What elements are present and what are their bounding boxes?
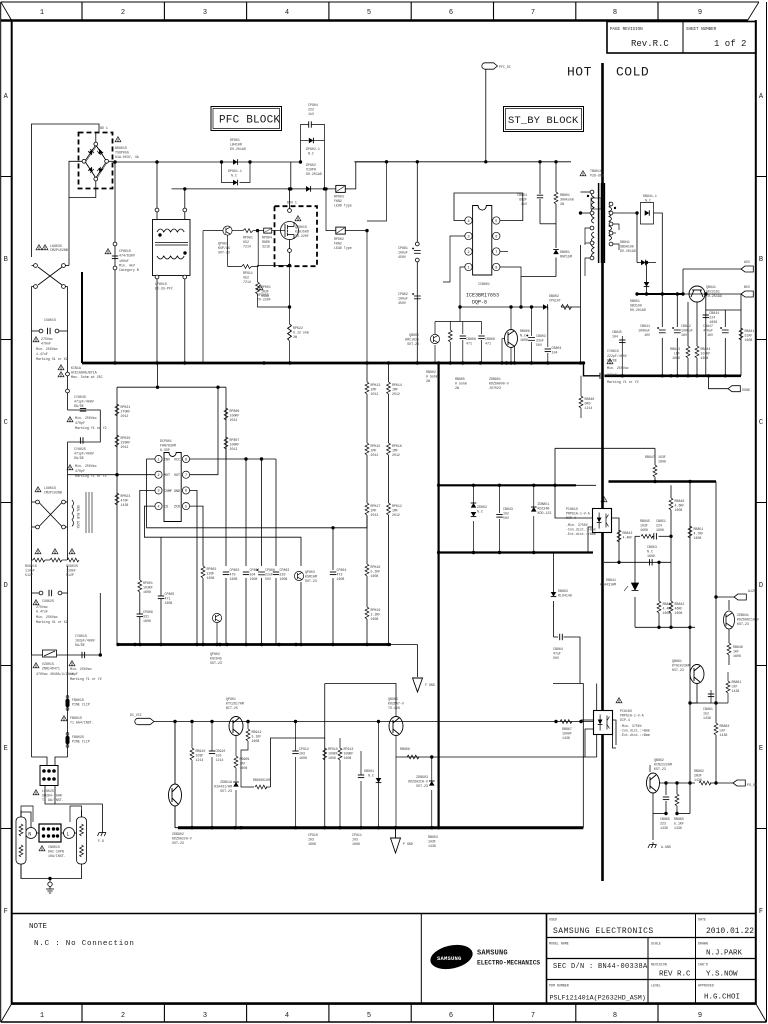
svg-text:QP901: QP901 <box>218 242 228 246</box>
svg-text:RB908: RB908 <box>253 778 263 782</box>
svg-text:FKN2: FKN2 <box>334 199 342 203</box>
svg-text:50V: 50V <box>536 343 542 347</box>
svg-text:1KF: 1KF <box>240 762 246 766</box>
svg-text:CPG10T: CPG10T <box>549 299 561 303</box>
svg-text:RPK13: RPK13 <box>371 383 381 387</box>
wire vertical joining rails <box>290 162 292 189</box>
svg-text:RPK21: RPK21 <box>121 405 131 409</box>
svg-text:USED: USED <box>549 918 557 922</box>
bus ST_BY snubber bus y=552.5 <box>439 551 593 553</box>
svg-text:104: 104 <box>552 351 558 355</box>
svg-text:QP803: QP803 <box>305 570 315 574</box>
svg-text:RGP15M: RGP15M <box>560 255 572 259</box>
svg-text:470F: 470F <box>121 499 129 503</box>
svg-text:ICB801: ICB801 <box>478 282 490 286</box>
svg-text:-Ext.dist.:>8mm: -Ext.dist.:>8mm <box>566 532 596 536</box>
capacitor CY804S <box>80 409 86 412</box>
transistor QB903 right <box>389 710 403 828</box>
Y-cap CY861 <box>600 373 603 379</box>
svg-text:512P: 512P <box>25 573 33 577</box>
svg-text:4: 4 <box>285 9 289 17</box>
svg-text:RP903: RP903 <box>334 195 344 199</box>
svg-text:CB801: CB801 <box>517 193 527 197</box>
side row ticks <box>1 177 767 829</box>
resistor RB845 RB848 RB849 RB842 capacitor CB851 CB853 network <box>604 485 695 627</box>
svg-text:300kohm: 300kohm <box>560 198 574 202</box>
capacitor CX802 <box>39 591 43 595</box>
svg-text:Category B: Category B <box>119 268 139 272</box>
svg-text:RX803S: RX803S <box>66 564 78 568</box>
svg-text:CP804: CP804 <box>337 568 347 572</box>
wire bridge bottom down-left <box>69 189 96 198</box>
svg-text:2012: 2012 <box>121 414 129 418</box>
zener ZD802 <box>473 485 475 552</box>
svg-text:2012: 2012 <box>230 418 238 422</box>
svg-text:D: D <box>4 582 8 590</box>
svg-text:1608: 1608 <box>344 756 352 760</box>
svg-text:RB862: RB862 <box>694 769 704 773</box>
svg-text:E: E <box>759 745 763 753</box>
svg-text:LKF: LKF <box>720 729 726 733</box>
svg-text:DB863: DB863 <box>558 589 568 593</box>
wire vertical x=583.3 <box>553 684 583 828</box>
svg-text:7214: 7214 <box>243 245 251 249</box>
wire below LF802 <box>45 786 103 805</box>
secondary connections <box>613 203 662 295</box>
svg-text:CB864: CB864 <box>553 647 563 651</box>
wire y=683.5 segment left <box>325 684 396 711</box>
zener ZDB841 + QB843 right <box>724 597 735 665</box>
svg-text:ZDB801: ZDB801 <box>489 377 501 381</box>
column numbers bottom <box>40 1012 702 1020</box>
resistor RB910 <box>190 748 194 760</box>
svg-text:KSP/AG: KSP/AG <box>218 246 230 250</box>
AC inlet CN801 <box>26 828 37 839</box>
svg-text:VCC: VCC <box>174 458 180 462</box>
svg-text:1000uF: 1000uF <box>638 329 650 333</box>
svg-text:SB5H100: SB5H100 <box>620 245 634 249</box>
zener ZDB903 <box>431 757 433 828</box>
svg-text:U52: U52 <box>243 240 249 244</box>
svg-text:470: 470 <box>230 573 236 577</box>
svg-text:RB801: RB801 <box>560 193 570 197</box>
svg-text:2012: 2012 <box>371 392 379 396</box>
svg-text:470pF: 470pF <box>75 469 85 473</box>
svg-text:103KF: 103KF <box>701 352 711 356</box>
svg-text:FKN2: FKN2 <box>334 242 342 246</box>
svg-text:RP911: RP911 <box>243 271 253 275</box>
varistor VZ801 <box>43 650 57 657</box>
svg-text:JO7023: JO7023 <box>489 386 501 390</box>
svg-text:ZDB851: ZDB851 <box>538 502 550 506</box>
svg-text:C: C <box>759 419 763 427</box>
svg-text:5W264-70AR: 5W264-70AR <box>42 794 62 798</box>
svg-text:EI-33-PFC: EI-33-PFC <box>155 287 173 291</box>
svg-text:CP912: CP912 <box>299 747 309 751</box>
svg-text:275Vac: 275Vac <box>36 605 48 609</box>
svg-text:CP802: CP802 <box>230 568 240 572</box>
svg-text:47uF: 47uF <box>553 652 561 656</box>
svg-text:DGND: DGND <box>742 388 750 392</box>
wire aux thick line y=485.3 <box>439 484 576 486</box>
svg-text:CY804S: CY804S <box>74 395 86 399</box>
svg-text:LP801S: LP801S <box>155 282 167 286</box>
svg-text:331: 331 <box>143 615 149 619</box>
svg-text:1000F: 1000F <box>562 732 572 736</box>
svg-text:Min. 250Vac: Min. 250Vac <box>607 366 629 370</box>
svg-text:RB845: RB845 <box>640 519 650 523</box>
svg-text:MODEL NAME: MODEL NAME <box>549 942 569 946</box>
svg-text:RPK19: RPK19 <box>371 608 381 612</box>
svg-text:REVISION: REVISION <box>651 963 667 967</box>
transistor QB801 <box>505 330 518 348</box>
svg-text:N.C: N.C <box>645 199 651 203</box>
svg-text:-Min. 3750V: -Min. 3750V <box>566 523 588 527</box>
capacitor CB910 <box>209 751 215 754</box>
svg-text:SOT-23: SOT-23 <box>305 579 317 583</box>
svg-text:7214: 7214 <box>243 280 251 284</box>
svg-text:KST-23: KST-23 <box>654 767 666 771</box>
svg-text:LX801S: LX801S <box>44 486 56 490</box>
svg-text:1KF: 1KF <box>733 650 739 654</box>
opto PC816 <box>616 698 622 703</box>
svg-text:CB844: CB844 <box>709 311 719 315</box>
svg-text:RB851: RB851 <box>694 527 704 531</box>
svg-text:4: 4 <box>157 505 159 509</box>
svg-text:103F: 103F <box>428 840 436 844</box>
wire RP902 row and x=367 drop <box>326 162 389 363</box>
svg-text:DB851: DB851 <box>630 299 640 303</box>
svg-text:10V: 10V <box>644 333 650 337</box>
resistor chain RPK21 RPK20 RPK23 <box>115 404 119 416</box>
svg-text:RPK15: RPK15 <box>371 444 381 448</box>
svg-text:KCN2222AM: KCN2222AM <box>654 763 672 767</box>
IC ICB801 <box>473 206 492 276</box>
wire LF802 connections <box>32 757 48 766</box>
svg-text:CB806: CB806 <box>466 337 476 341</box>
svg-text:1608: 1608 <box>675 611 683 615</box>
svg-text:102: 102 <box>503 512 509 516</box>
svg-text:-Con.dist.:>8mm: -Con.dist.:>8mm <box>566 528 596 532</box>
svg-text:RB903: RB903 <box>428 835 438 839</box>
svg-text:1 of 2: 1 of 2 <box>714 39 746 49</box>
svg-text:SOT-23: SOT-23 <box>416 784 428 788</box>
svg-text:512P: 512P <box>66 573 74 577</box>
svg-text:RX801S: RX801S <box>25 564 37 568</box>
svg-text:2: 2 <box>121 1012 125 1020</box>
svg-text:1.47uF: 1.47uF <box>36 352 48 356</box>
opto PC861 <box>601 497 607 502</box>
svg-text:100KF: 100KF <box>230 414 240 418</box>
wire PFC lower line y=189 <box>172 188 336 190</box>
IC pin wires <box>68 449 368 645</box>
top strip bottom (thick) <box>1 19 748 21</box>
diode DB851 <box>644 282 650 287</box>
svg-text:CS: CS <box>164 505 168 509</box>
svg-text:3: 3 <box>157 490 159 494</box>
svg-text:KST-23: KST-23 <box>737 622 749 626</box>
svg-text:KST-23: KST-23 <box>672 668 684 672</box>
svg-text:KTC2617AM: KTC2617AM <box>226 702 244 706</box>
wire line y=387 <box>117 363 226 645</box>
svg-text:102pF/400V: 102pF/400V <box>75 639 95 643</box>
capacitor CP911 <box>358 775 364 778</box>
svg-text:RB848: RB848 <box>675 499 685 503</box>
svg-text:2W: 2W <box>455 386 459 390</box>
svg-text:2012: 2012 <box>392 392 400 396</box>
svg-text:0.47uF: 0.47uF <box>36 610 48 614</box>
svg-text:DATE: DATE <box>698 918 706 922</box>
svg-text:DAC-10PN: DAC-10PN <box>48 850 64 854</box>
svg-text:DP902-1: DP902-1 <box>306 147 320 151</box>
svg-text:RP806: RP806 <box>230 409 240 413</box>
svg-text:DO-201AD: DO-201AD <box>230 147 246 151</box>
svg-text:CP861: CP861 <box>398 246 408 250</box>
svg-text:6: 6 <box>449 1012 453 1020</box>
svg-text:ACE1A9AGJ8Y1A: ACE1A9AGJ8Y1A <box>71 371 97 375</box>
svg-text:CB803: CB803 <box>536 334 546 338</box>
svg-text:QB862: QB862 <box>654 758 664 762</box>
wire output line y=294 thick <box>637 293 683 295</box>
svg-text:RB841: RB841 <box>745 329 755 333</box>
svg-text:5.1KF: 5.1KF <box>252 735 262 739</box>
svg-text:N.C : No Connection: N.C : No Connection <box>34 940 135 948</box>
svg-text:2W: 2W <box>293 335 297 339</box>
svg-text:100KF: 100KF <box>344 752 354 756</box>
svg-text:2W: 2W <box>560 202 564 206</box>
svg-text:A12V: A12V <box>748 589 756 593</box>
bottom strip top (thick) <box>12 1002 757 1005</box>
wire main PFC output rail y=162 left part <box>113 161 301 163</box>
svg-text:1438: 1438 <box>562 736 570 740</box>
wire HOT/COLD divider <box>601 63 604 881</box>
svg-text:QP901S: QP901S <box>295 225 307 229</box>
svg-text:C: C <box>4 419 8 427</box>
IC pin wires <box>421 193 523 307</box>
svg-text:16V: 16V <box>681 333 687 337</box>
wire top loop to bridge <box>32 124 100 257</box>
svg-text:TB801A: TB801A <box>590 169 602 173</box>
svg-text:B5V: B5V <box>744 285 750 289</box>
wire DC_VCC line y=721.5 <box>154 721 593 723</box>
svg-text:1: 1 <box>157 458 159 462</box>
svg-text:450V: 450V <box>398 301 406 305</box>
svg-text:Ti AA/INST.: Ti AA/INST. <box>42 798 64 802</box>
transistor QP802 lower left <box>212 613 221 622</box>
svg-text:270KF: 270KF <box>121 410 131 414</box>
svg-text:8: 8 <box>185 458 187 462</box>
svg-text:6: 6 <box>449 9 453 17</box>
svg-text:1MF: 1MF <box>392 509 398 513</box>
small snubber box on left <box>591 198 601 209</box>
svg-text:KDD-123: KDD-123 <box>538 511 552 515</box>
svg-text:474/630V: 474/630V <box>119 254 135 258</box>
svg-text:0 5ohm: 0 5ohm <box>455 382 467 386</box>
svg-text:KDZ6A2CA-V: KDZ6A2CA-V <box>172 837 192 841</box>
svg-text:1105F: 1105F <box>25 569 35 573</box>
svg-text:PRPS1A-1-V-A: PRPS1A-1-V-A <box>566 512 590 516</box>
svg-text:1608: 1608 <box>252 739 260 743</box>
svg-text:RB846: RB846 <box>733 645 743 649</box>
svg-text:SEC D/N : BN44-00338A: SEC D/N : BN44-00338A <box>553 963 648 971</box>
svg-text:F: F <box>4 908 8 916</box>
svg-text:TO-220F: TO-220F <box>257 298 271 302</box>
svg-text:CB910: CB910 <box>216 749 226 753</box>
transistor QB902 left <box>169 722 182 828</box>
svg-text:PRPS1A-1-V-A: PRPS1A-1-V-A <box>620 714 644 718</box>
svg-text:100KF: 100KF <box>230 443 240 447</box>
svg-text:1608: 1608 <box>328 756 336 760</box>
inner frame verticals (thick) <box>11 20 13 1004</box>
svg-text:DP902: DP902 <box>306 163 316 167</box>
svg-text:KDZ6A0V0-V: KDZ6A0V0-V <box>489 382 509 386</box>
wire left rail x=31.5 <box>31 290 33 757</box>
svg-text:CY801S: CY801S <box>75 634 87 638</box>
svg-text:RP807: RP807 <box>230 438 240 442</box>
line filter LF801 <box>32 492 93 533</box>
svg-text:222pF/400V: 222pF/400V <box>607 354 627 358</box>
svg-text:SAMSUNG: SAMSUNG <box>477 950 508 958</box>
diode DB861 branch <box>553 553 580 684</box>
svg-text:PFC BLOCK: PFC BLOCK <box>219 115 280 127</box>
svg-text:MOT: MOT <box>164 473 170 477</box>
svg-text:2012: 2012 <box>121 445 129 449</box>
svg-text:KIA431AM: KIA431AM <box>600 583 616 587</box>
svg-text:Min. 250Vac: Min. 250Vac <box>36 615 58 619</box>
svg-text:RB909: RB909 <box>240 757 250 761</box>
svg-text:BCT-25: BCT-25 <box>226 706 238 710</box>
svg-text:1608: 1608 <box>207 576 215 580</box>
svg-text:275Vac: 275Vac <box>41 337 53 341</box>
wire vcc vertical <box>417 645 419 678</box>
svg-text:HOT: HOT <box>567 65 592 80</box>
svg-text:1608: 1608 <box>240 766 248 770</box>
svg-text:RP901: RP901 <box>243 236 253 240</box>
svg-text:1608: 1608 <box>658 460 666 464</box>
svg-text:RLS4148: RLS4148 <box>558 594 572 598</box>
svg-text:SOT-23: SOT-23 <box>407 342 419 346</box>
svg-text:8: 8 <box>613 9 617 17</box>
diode DP901 <box>233 159 238 165</box>
svg-text:P26-STB: P26-STB <box>590 174 604 178</box>
svg-text:E: E <box>4 745 8 753</box>
svg-text:N.C: N.C <box>308 152 314 156</box>
svg-text:TO-251AA: TO-251AA <box>706 294 722 298</box>
svg-text:Min. 250Vac: Min. 250Vac <box>75 416 97 420</box>
svg-text:100uF: 100uF <box>398 251 408 255</box>
svg-text:1608: 1608 <box>675 508 683 512</box>
MOSFET QP901 dashed box <box>275 206 318 266</box>
svg-text:ZCD: ZCD <box>174 505 180 509</box>
svg-text:1438: 1438 <box>694 778 702 782</box>
svg-text:81A-003Y, 4A: 81A-003Y, 4A <box>115 155 139 159</box>
svg-text:5: 5 <box>495 220 497 224</box>
svg-text:471: 471 <box>466 342 472 346</box>
wire varistor row <box>32 654 101 656</box>
svg-text:SEC2161: SEC2161 <box>706 290 720 294</box>
wire AC inlet area <box>33 804 45 820</box>
svg-text:CB841: CB841 <box>640 324 650 328</box>
capacitor CP801S <box>113 242 117 246</box>
svg-text:B: B <box>759 256 763 264</box>
connector A5V with wire y=269 <box>683 266 753 294</box>
wire vertical x=596.7 <box>596 684 598 758</box>
svg-text:CP806: CP806 <box>143 610 153 614</box>
svg-text:3216: 3216 <box>262 245 270 249</box>
top strip column dividers <box>82 2 658 21</box>
svg-text:RB866: RB866 <box>400 747 410 751</box>
svg-text:Marking X1 or X2: Marking X1 or X2 <box>36 620 68 624</box>
svg-text:220pF: 220pF <box>607 373 617 377</box>
svg-text:LEVEL: LEVEL <box>651 984 661 988</box>
svg-text:220F: 220F <box>207 572 215 576</box>
svg-text:RP801: RP801 <box>143 581 153 585</box>
svg-text:CB808: CB808 <box>485 337 495 341</box>
svg-text:CY861S: CY861S <box>607 349 619 353</box>
wire long thick vertical x=438.6 <box>438 363 440 828</box>
svg-text:P GND: P GND <box>403 842 413 846</box>
svg-text:CHK'D: CHK'D <box>698 963 708 967</box>
primary connections <box>556 192 590 277</box>
wire bridge left to relay rail <box>69 161 85 197</box>
svg-text:1214: 1214 <box>585 406 593 410</box>
svg-text:CP862: CP862 <box>398 292 408 296</box>
wire inlet bottoms <box>21 864 82 879</box>
svg-text:GND: GND <box>174 489 180 493</box>
svg-text:CN801S: CN801S <box>48 845 60 849</box>
resistor RB847 <box>653 465 657 477</box>
bus COLD ground bus y=375.8 <box>605 374 742 377</box>
resistor RB867 <box>560 720 572 724</box>
svg-text:DA/DE: DA/DE <box>74 456 84 460</box>
svg-text:TS6P05G: TS6P05G <box>115 151 129 155</box>
svg-text:6: 6 <box>495 235 497 239</box>
svg-text:CX801S: CX801S <box>44 318 56 322</box>
wire x=82 to bus <box>81 272 83 363</box>
svg-text:N.C: N.C <box>647 550 653 554</box>
svg-text:RB847: RB847 <box>645 455 655 459</box>
svg-text:RB863: RB863 <box>720 724 730 728</box>
svg-text:1438: 1438 <box>428 844 436 848</box>
svg-text:1438: 1438 <box>732 689 740 693</box>
svg-text:CP803: CP803 <box>280 568 290 572</box>
connector B5V <box>741 291 753 297</box>
svg-text:220: 220 <box>280 573 286 577</box>
wire CP801S cap drop <box>114 162 116 363</box>
svg-text:5.1KF: 5.1KF <box>674 822 684 826</box>
transistor QP901 mid <box>229 717 243 736</box>
svg-text:DC_VCC: DC_VCC <box>130 713 142 717</box>
svg-text:1608: 1608 <box>308 842 316 846</box>
svg-text:152: 152 <box>703 712 709 716</box>
resistor row RX801S <box>35 549 41 554</box>
wire y-cap box <box>68 410 101 442</box>
resistor RP806 RP807 <box>224 408 228 420</box>
svg-text:SOT-23: SOT-23 <box>220 789 232 793</box>
svg-text:1608: 1608 <box>250 577 258 581</box>
svg-text:R6R0: R6R0 <box>262 240 270 244</box>
svg-text:103F: 103F <box>658 455 666 459</box>
capacitor CY801S <box>82 652 85 658</box>
svg-text:1438: 1438 <box>674 826 682 830</box>
bus PFC ground bus y=644.5 <box>117 643 391 646</box>
svg-text:1214: 1214 <box>216 758 224 762</box>
svg-text:4: 4 <box>467 220 469 224</box>
svg-text:46KF: 46KF <box>675 607 683 611</box>
svg-text:2N3F: 2N3F <box>694 774 702 778</box>
svg-text:CP808: CP808 <box>265 568 275 572</box>
svg-text:PDM NUMBER: PDM NUMBER <box>549 984 569 988</box>
